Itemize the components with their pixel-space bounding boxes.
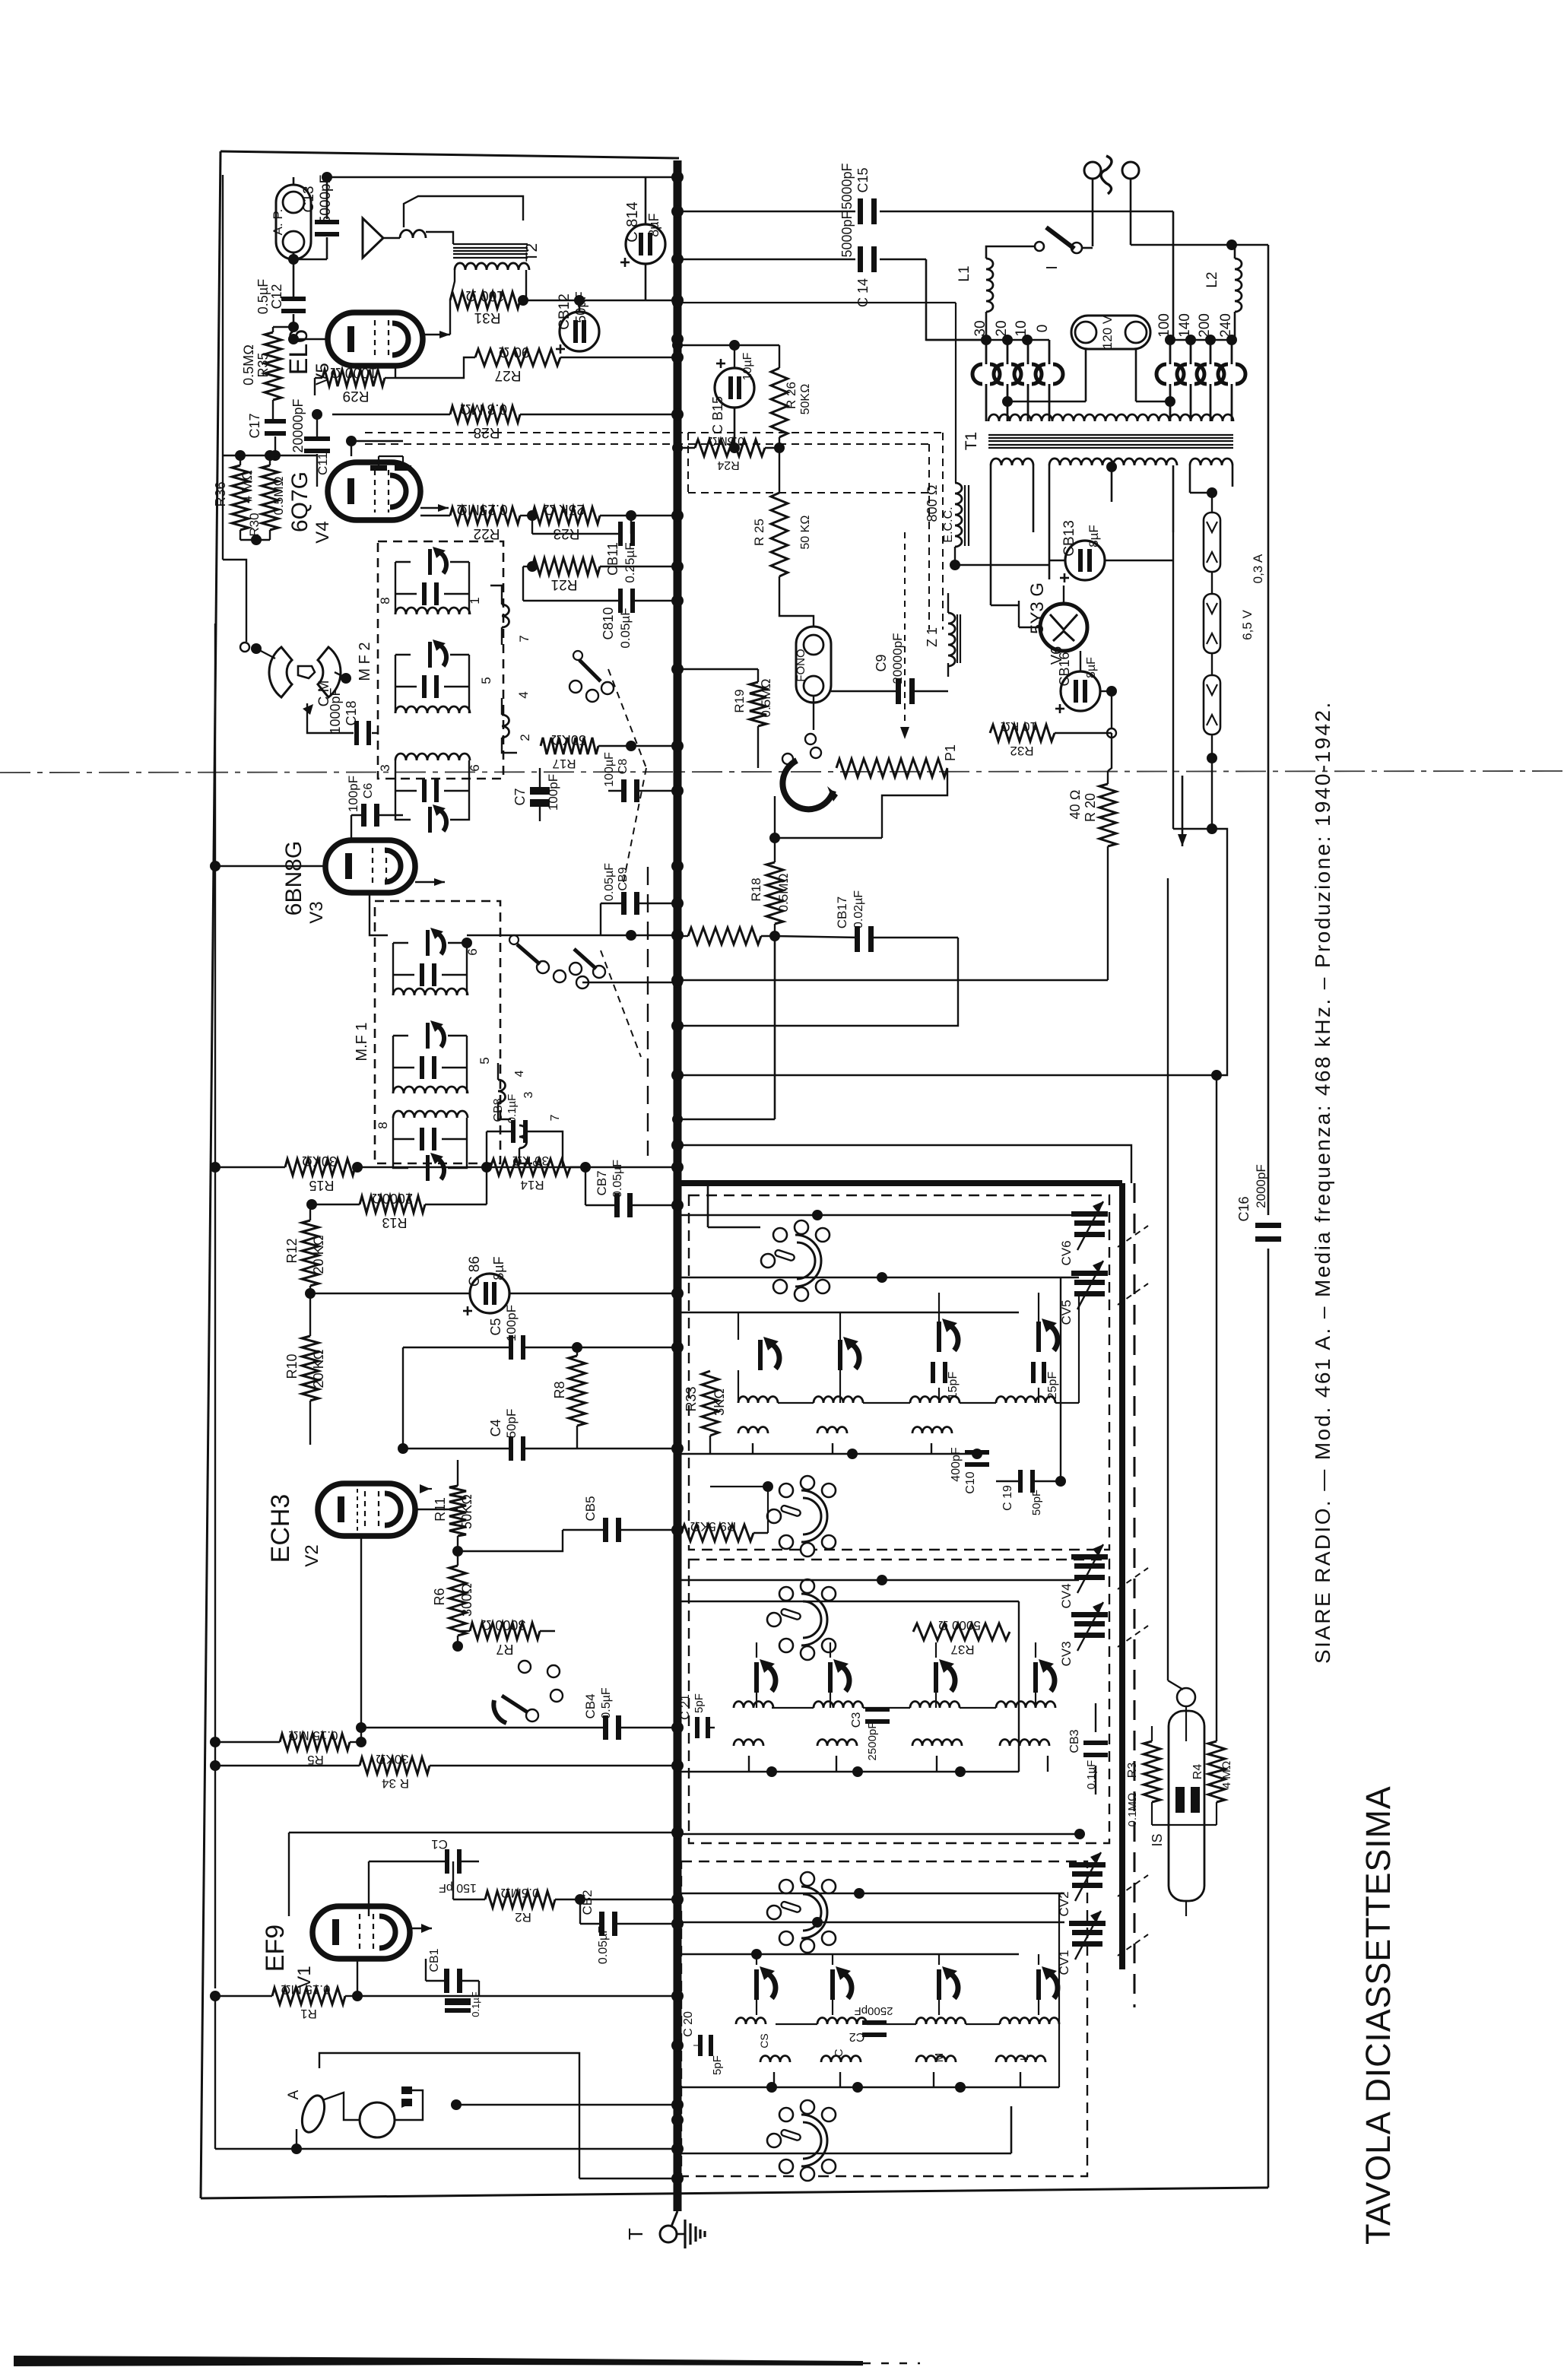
svg-text:4: 4 <box>516 691 531 698</box>
phono connector FONO <box>796 627 831 703</box>
antenna wires to bus <box>297 2148 677 2150</box>
svg-text:C7: C7 <box>512 788 528 805</box>
svg-text:R8: R8 <box>552 1381 567 1398</box>
svg-text:20000pF: 20000pF <box>890 633 905 684</box>
wire secondary to V6 filament <box>991 605 1019 606</box>
svg-text:0.05µF: 0.05µF <box>597 1926 610 1964</box>
svg-text:50KΩ: 50KΩ <box>799 384 812 415</box>
svg-text:IS: IS <box>1150 1833 1165 1846</box>
rectifier tube V6 5Y3G <box>1040 604 1087 651</box>
wire bus to band box2 bottom <box>677 1833 1080 1836</box>
svg-text:R11: R11 <box>433 1497 448 1522</box>
svg-text:R9 5KΩ: R9 5KΩ <box>690 1519 736 1534</box>
svg-text:20 KΩ: 20 KΩ <box>311 1350 326 1388</box>
osc coil 1 <box>738 1397 778 1404</box>
resistor R3 0.1MΩ <box>1144 1741 1160 1802</box>
svg-text:C3: C3 <box>850 1712 863 1728</box>
capacitor CB10 0.05µF <box>618 589 623 613</box>
right border wire down <box>1267 245 1270 1215</box>
svg-text:CB12: CB12 <box>557 294 573 330</box>
svg-text:C 86: C 86 <box>467 1256 483 1287</box>
svg-text:0.15 MΩ: 0.15 MΩ <box>281 1982 330 1997</box>
svg-text:R29: R29 <box>343 388 370 404</box>
wire bus long to CV gang <box>677 1145 1131 1183</box>
svg-text:R18: R18 <box>749 877 763 901</box>
wire heater line down to R4 <box>1216 1075 1217 1741</box>
svg-text:V2: V2 <box>302 1544 322 1566</box>
wire bus y454 <box>677 344 779 346</box>
svg-text:E.C.C.: E.C.C. <box>942 506 955 542</box>
tube V3 6BN8G <box>325 840 415 893</box>
potentiometer P1 <box>836 759 947 777</box>
svg-text:L1: L1 <box>956 265 972 281</box>
osc trimmer 2 <box>838 1340 842 1370</box>
V5 plate arrow <box>423 334 450 336</box>
svg-text:C6: C6 <box>362 783 375 799</box>
pilot lamp 3 <box>1204 675 1220 735</box>
svg-text:CV4: CV4 <box>1059 1583 1074 1608</box>
resistor R17 50KΩ <box>541 738 598 754</box>
capacitor CB9 0.05µF <box>621 892 627 915</box>
V4 top cap wire <box>351 441 403 456</box>
svg-text:CB2: CB2 <box>580 1890 595 1915</box>
svg-text:V3: V3 <box>306 901 327 923</box>
capacitor CB8 0.1µF <box>511 1120 516 1143</box>
osc coil 4 <box>996 1397 1055 1404</box>
MF1 secondary coil <box>393 1087 468 1093</box>
IF transformer MF1 shield box <box>375 901 500 1163</box>
electrolytic CB12 50µF <box>560 312 599 351</box>
voltage taps right <box>1170 339 1235 341</box>
svg-text:100pF: 100pF <box>504 1305 519 1341</box>
resistor R2 0.5MΩ <box>485 1891 555 1908</box>
wire C14 to taps <box>926 259 986 340</box>
svg-text:R37: R37 <box>950 1642 974 1657</box>
loudspeaker <box>363 218 383 258</box>
capacitor C17 <box>273 420 275 421</box>
capacitor C15 5000pF <box>858 198 863 224</box>
tuning gang frame thick line <box>1119 1183 1125 1969</box>
antenna dashed box upper <box>689 1560 1109 1843</box>
tuner top heavy line <box>675 1180 1122 1186</box>
wire bus thin to choke column <box>677 302 956 303</box>
resistor R27 90Ω <box>475 349 560 366</box>
capacitor 15pF <box>931 1362 935 1383</box>
svg-text:C 19: C 19 <box>1001 1485 1014 1511</box>
resistor R18 horizontal to bus <box>688 928 761 944</box>
120V tap wires <box>1085 349 1087 401</box>
junction rail dots <box>210 1162 220 1173</box>
V3 grid wire <box>215 865 325 868</box>
svg-text:R27: R27 <box>495 367 522 383</box>
C1 link wires <box>452 1861 454 1899</box>
svg-text:800 Ω: 800 Ω <box>925 485 940 522</box>
band coil row 3d <box>1000 1740 1049 1747</box>
svg-text:M.F 1: M.F 1 <box>354 1022 370 1061</box>
svg-text:100µF: 100µF <box>603 752 616 787</box>
MF2 primary coil <box>395 608 470 614</box>
T1 center tap <box>1106 462 1117 472</box>
CV gang ticks <box>1118 1226 1148 1247</box>
wire V5 grid <box>293 338 328 341</box>
wire lamps to bus long loop <box>677 829 1227 1075</box>
svg-text:50KΩ: 50KΩ <box>551 732 586 747</box>
osc coil 3 <box>910 1397 960 1404</box>
band coil row 2 <box>734 1702 773 1709</box>
svg-text:6: 6 <box>465 948 480 955</box>
shield dashed drop to P1 <box>904 532 906 726</box>
bottom black registration bar <box>14 2356 863 2366</box>
osc trimmer 3 with 15pF <box>937 1322 941 1352</box>
capacitor C19 50pF <box>1018 1470 1023 1493</box>
svg-text:100pF: 100pF <box>346 776 360 812</box>
svg-text:SIARE RADIO. — Mod. 461 A.: SIARE RADIO. — Mod. 461 A. – Media frequ… <box>1311 700 1334 1664</box>
svg-text:CB8: CB8 <box>492 1098 505 1122</box>
svg-text:A. P.: A. P. <box>271 209 285 236</box>
svg-text:CB1: CB1 <box>428 1948 441 1972</box>
capacitor C16 2000pF <box>1255 1223 1281 1228</box>
svg-text:0.05µF: 0.05µF <box>603 863 616 901</box>
resistor R37 5000Ω <box>913 1623 1010 1640</box>
svg-text:6: 6 <box>468 764 482 771</box>
wire lower frame <box>214 1996 216 2149</box>
IF transformer MF2 shield box <box>378 541 503 779</box>
wire bus to C14 <box>677 259 855 261</box>
svg-text:0.25µF: 0.25µF <box>623 542 637 582</box>
capacitor CB3 0.1µF <box>1083 1741 1108 1745</box>
svg-text:2500pF: 2500pF <box>866 1722 879 1761</box>
svg-text:300Ω: 300Ω <box>459 1583 474 1617</box>
osc right rail <box>1060 1277 1061 1481</box>
resistor R10 20KΩ <box>302 1336 319 1401</box>
electrolytic CB16 8µF <box>1061 671 1100 711</box>
svg-text:4: 4 <box>513 1070 526 1077</box>
variable capacitor CV3 <box>1074 1621 1105 1626</box>
svg-text:8µF: 8µF <box>491 1256 506 1280</box>
switch gang dashed link 2 <box>601 950 641 1057</box>
smoothing choke Z1 <box>948 613 955 666</box>
capacitor C12 0.5µF <box>293 252 295 300</box>
resistor R1 0.15MΩ <box>272 1988 345 2004</box>
V2 hexode grids <box>357 1489 358 1531</box>
resistor R6 300Ω <box>449 1566 466 1636</box>
svg-text:C8: C8 <box>617 759 630 775</box>
wire MF1 switch to bus <box>582 982 677 984</box>
capacitor C10 400pF <box>965 1450 989 1455</box>
capacitor C1 150pF <box>445 1849 449 1874</box>
svg-text:5000pF: 5000pF <box>839 163 855 209</box>
svg-text:TAVOLA DICIASSETTESIMA: TAVOLA DICIASSETTESIMA <box>1359 1785 1397 2245</box>
heater rail from T1 to lamp bottom <box>1172 532 1174 829</box>
svg-text:C10: C10 <box>964 1471 977 1493</box>
transformer T1 primary <box>988 414 1233 421</box>
resistor R21 <box>532 558 600 575</box>
band row3 coil stubs <box>748 1756 750 1772</box>
svg-text:100pF: 100pF <box>546 774 560 811</box>
svg-text:R7: R7 <box>496 1642 513 1657</box>
svg-text:R3: R3 <box>1126 1763 1139 1779</box>
resistor R25 50KΩ <box>771 493 788 576</box>
svg-text:0.1MΩ: 0.1MΩ <box>1126 1793 1139 1827</box>
lamp lower wire <box>1211 735 1213 829</box>
wafer switch S1b <box>767 1476 836 1557</box>
resistor R13 2000Ω <box>360 1196 425 1213</box>
band switch at MF1 right <box>574 949 596 969</box>
resistor R34 30KΩ <box>360 1757 430 1774</box>
ground symbol <box>684 2220 686 2248</box>
svg-text:R33: R33 <box>684 1386 699 1411</box>
svg-text:C1: C1 <box>431 1837 448 1852</box>
svg-text:R6: R6 <box>432 1588 447 1605</box>
svg-text:CB11: CB11 <box>605 542 620 576</box>
ant coil row M <box>916 2018 966 2025</box>
svg-text:50 KΩ: 50 KΩ <box>799 515 812 549</box>
variable capacitor CV6 <box>1074 1220 1105 1226</box>
capacitor C4 50pF <box>509 1436 513 1461</box>
paper fold crease <box>0 771 1564 773</box>
capacitor C5 100pF <box>509 1335 513 1360</box>
capacitor C13 5000pF <box>315 220 339 224</box>
shielded cable dashed pair <box>365 432 943 433</box>
svg-text:P1: P1 <box>943 744 958 761</box>
svg-text:C2: C2 <box>849 2030 865 2043</box>
svg-text:1000 Ω: 1000 Ω <box>330 364 377 380</box>
svg-text:R 25: R 25 <box>752 519 766 546</box>
MF2 primary cap <box>422 582 427 605</box>
svg-text:50pF: 50pF <box>1030 1490 1043 1515</box>
wires P1 wiper <box>774 796 776 838</box>
MF2 tertiary coil <box>395 754 470 760</box>
MF2 tertiary cap <box>422 779 427 802</box>
resistor R8 <box>569 1356 585 1426</box>
svg-text:T: T <box>624 2228 647 2240</box>
svg-text:150 pF: 150 pF <box>439 1881 477 1894</box>
svg-text:CS: CS <box>758 2033 770 2048</box>
svg-text:0: 0 <box>1035 325 1051 333</box>
resistor R31 100Ω <box>450 292 520 309</box>
svg-text:R35: R35 <box>255 352 271 377</box>
svg-text:C 20: C 20 <box>682 2011 695 2037</box>
svg-text:CB16: CB16 <box>1057 652 1072 686</box>
capacitor CB11 0.25µF <box>531 516 533 534</box>
band coil row 3b <box>817 1740 857 1747</box>
svg-text:7: 7 <box>517 635 531 642</box>
T1 secondary left <box>991 459 1033 465</box>
power switch I <box>1035 242 1044 251</box>
svg-text:2000Ω: 2000Ω <box>372 1191 413 1206</box>
MF1 tertiary coil <box>393 1111 468 1118</box>
svg-text:C15: C15 <box>855 167 871 192</box>
schematic outer border left <box>201 151 220 2198</box>
ground bus (thick vertical) <box>674 160 682 2211</box>
svg-text:10: 10 <box>1014 320 1029 336</box>
MF1 primary coil <box>393 988 468 995</box>
electrolytic C814 8µF <box>626 224 665 264</box>
ant wiring <box>681 1893 1064 1895</box>
svg-text:CV6: CV6 <box>1059 1240 1074 1265</box>
svg-text:0.25MΩ: 0.25MΩ <box>456 501 507 517</box>
svg-text:C9: C9 <box>874 654 889 671</box>
svg-text:R15: R15 <box>309 1178 334 1193</box>
svg-text:R 20: R 20 <box>1083 793 1098 822</box>
svg-text:5pF: 5pF <box>711 2055 724 2075</box>
switch gang dashed link <box>608 669 646 768</box>
band coil row 2c <box>910 1702 960 1709</box>
svg-text:R2: R2 <box>515 1910 531 1925</box>
band coil row 2d <box>996 1702 1055 1709</box>
CM top contact <box>240 643 249 652</box>
svg-text:10µF: 10µF <box>741 352 754 380</box>
connector A.P. oval <box>276 185 311 259</box>
ant trimmer row <box>754 1969 759 2000</box>
resistor R22 0.25MΩ <box>450 507 520 524</box>
svg-text:T2: T2 <box>523 243 541 262</box>
wire lower right return <box>677 2153 1011 2155</box>
resistor R35 0.5MΩ <box>265 332 281 400</box>
heater junctions <box>1207 487 1217 498</box>
svg-text:5000pF: 5000pF <box>839 211 855 257</box>
ant coil row2 d <box>996 2056 1045 2063</box>
capacitor C18 1000pF <box>307 703 354 733</box>
svg-text:0.5MΩ: 0.5MΩ <box>241 344 256 386</box>
svg-text:1000pF: 1000pF <box>328 687 343 734</box>
ant coil row2 b <box>821 2056 861 2063</box>
MF2 link coil upper <box>502 605 509 627</box>
resistor R12 20KΩ <box>302 1220 319 1286</box>
mains plug <box>1084 162 1101 179</box>
electrolytic CB13 8µF <box>1065 541 1105 580</box>
svg-text:3: 3 <box>522 1091 535 1098</box>
mid band wiring <box>681 1579 1079 1582</box>
svg-text:400pF: 400pF <box>950 1447 963 1482</box>
svg-text:8µF: 8µF <box>646 213 661 236</box>
V1 plate arrow <box>421 1924 432 1933</box>
svg-text:100 Ω: 100 Ω <box>465 287 505 303</box>
osc link coil 1 <box>738 1427 768 1434</box>
svg-text:5: 5 <box>479 677 493 684</box>
bus terminal T circle <box>660 2226 677 2242</box>
MF1 secondary cap <box>420 1056 424 1079</box>
svg-text:C4: C4 <box>488 1419 503 1436</box>
ant row2 coil stubs <box>773 2072 775 2087</box>
svg-text:0.02µF: 0.02µF <box>852 890 865 928</box>
CM stator wire <box>335 672 344 677</box>
svg-text:FONO: FONO <box>795 649 807 681</box>
svg-text:C 21: C 21 <box>679 1694 692 1720</box>
svg-text:C810: C810 <box>601 607 616 639</box>
band switch shaft dashed line <box>647 867 649 1156</box>
svg-text:1: 1 <box>468 597 482 604</box>
svg-text:0.5MΩ: 0.5MΩ <box>759 679 773 718</box>
MF1 tertiary cap <box>420 1128 424 1150</box>
svg-text:6BN8G: 6BN8G <box>281 841 306 916</box>
svg-text:EF9: EF9 <box>261 1925 290 1972</box>
resistor R11 50KΩ <box>449 1486 466 1536</box>
svg-text:0,3 A: 0,3 A <box>1251 554 1265 583</box>
svg-text:0.5MΩ: 0.5MΩ <box>501 1886 540 1900</box>
resistor R9 5KΩ <box>681 1525 753 1541</box>
band coil row 3 <box>734 1740 763 1747</box>
output transformer T2 <box>453 243 528 245</box>
svg-text:M F 2: M F 2 <box>357 642 373 681</box>
svg-text:L2: L2 <box>1204 271 1220 287</box>
wire P1 return to bus <box>774 936 776 1119</box>
svg-text:CV5: CV5 <box>1059 1299 1074 1325</box>
svg-text:120 V: 120 V <box>1100 315 1115 349</box>
svg-text:CB3: CB3 <box>1068 1729 1081 1753</box>
svg-text:0.3 MΩ: 0.3 MΩ <box>460 401 507 417</box>
svg-text:ECH3: ECH3 <box>266 1494 295 1563</box>
svg-text:R 34: R 34 <box>382 1776 409 1791</box>
primary tap coil L1 <box>986 259 993 312</box>
ant coil row CS <box>736 2018 766 2025</box>
wafer switch S2b <box>767 1872 836 1953</box>
electrolytic CB15 10µF <box>715 368 754 408</box>
wire V2 cathode <box>360 1536 362 1728</box>
svg-text:50pF: 50pF <box>504 1409 519 1439</box>
wire to tuning indicator IS <box>1167 878 1169 1680</box>
variable capacitor CV2 <box>1072 1871 1102 1877</box>
wire from A.P. to bus <box>327 176 677 179</box>
svg-text:4 MΩ: 4 MΩ <box>1220 1761 1233 1789</box>
MF1 tertiary trimmer K <box>426 1155 430 1181</box>
svg-text:2500pF: 2500pF <box>855 2004 893 2017</box>
svg-text:3: 3 <box>378 764 392 771</box>
osc row2 coil stubs <box>752 1443 753 1454</box>
mid band vertical links <box>756 1693 757 1708</box>
capacitor CB5 <box>603 1518 608 1542</box>
MF2 primary trimmer <box>428 549 432 575</box>
svg-text:20 KΩ: 20 KΩ <box>311 1236 326 1274</box>
capacitor CB7 0.05µF <box>614 1193 620 1217</box>
svg-text:20: 20 <box>994 320 1010 336</box>
bus junction dots <box>671 171 684 183</box>
svg-text:R 26: R 26 <box>784 382 798 409</box>
svg-text:10 KΩ: 10 KΩ <box>1001 719 1037 734</box>
svg-text:200: 200 <box>1197 313 1213 338</box>
svg-text:R22: R22 <box>474 525 500 541</box>
svg-text:140: 140 <box>1177 313 1193 338</box>
svg-text:CB13: CB13 <box>1061 520 1077 557</box>
T1 secondary rails <box>990 465 992 605</box>
svg-text:R21: R21 <box>551 576 578 592</box>
svg-text:8µF: 8µF <box>1087 525 1101 547</box>
schematic outer border top <box>220 151 679 158</box>
MF2 tertiary trimmer K <box>428 807 432 833</box>
MF2 link coil lower <box>502 715 509 738</box>
tuning gang dashed shaft <box>1134 1183 1136 2007</box>
resistor R23 25KΩ <box>532 507 600 524</box>
svg-text:5pF: 5pF <box>693 1693 706 1713</box>
schematic outer border bottom <box>201 2188 1268 2198</box>
resistor R20 40Ω <box>1099 784 1116 846</box>
svg-text:8: 8 <box>378 597 392 604</box>
resistor R28 0.3MΩ <box>450 406 520 423</box>
pilot lamp 2 <box>1204 594 1220 653</box>
capacitor 25pF <box>1031 1362 1036 1383</box>
svg-text:CB5: CB5 <box>583 1496 598 1521</box>
speaker frame wire <box>404 196 523 227</box>
svg-text:5000 Ω: 5000 Ω <box>938 1618 981 1633</box>
svg-text:0.5MΩ: 0.5MΩ <box>271 477 286 516</box>
oscillator switch contacts <box>519 1661 531 1673</box>
svg-text:R31: R31 <box>474 309 501 325</box>
svg-text:30 KΩ: 30 KΩ <box>512 1154 549 1168</box>
svg-text:C18: C18 <box>344 700 359 725</box>
svg-text:0.05µF: 0.05µF <box>611 1160 624 1198</box>
IS wiring <box>1152 1824 1217 1826</box>
band right rail <box>1018 1601 1020 1772</box>
